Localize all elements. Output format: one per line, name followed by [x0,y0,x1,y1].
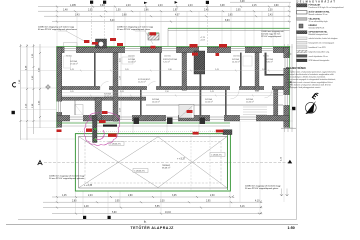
terrace diagonal 4 [158,137,227,188]
right dimension line 3 [291,44,293,132]
window opening top 5 [262,47,273,53]
svg-text:+ +3,37: + +3,37 [177,158,186,161]
room label szoba 7 [205,98,213,103]
compass circle [305,102,316,113]
interior wall v5 [182,53,187,91]
svg-text:9,80 m²: 9,80 m² [266,60,273,63]
svg-text:- A terv szerinti anyagok és r: - A terv szerinti anyagok és rétegrendek… [286,78,336,81]
svg-text:vakolat készítés, festés két r: vakolat készítés, festés két rétegben [309,37,338,40]
svg-text:4,10: 4,10 [255,200,260,202]
bottom section marker square m [108,216,111,219]
deck lines right room [243,107,267,115]
svg-text:+ +3,35: + +3,35 [84,184,93,187]
chimney top outside 1 [96,39,107,48]
top section marker arrow d1 [144,2,147,4]
interior dim chain row 2 [62,95,283,97]
eave level text [200,37,205,42]
svg-text:2,43: 2,43 [268,14,273,16]
svg-text:10,40 m²: 10,40 m² [246,100,254,103]
corridor wall B right thin line [146,104,283,106]
sheet frame bottom border of plan area [18,219,297,221]
bottom dimension line 2 [43,201,260,203]
interior wall v8 [240,53,242,87]
svg-text:PP-UV szigetelőpanel: PP-UV szigetelőpanel [261,35,282,38]
svg-text:11,20 m²: 11,20 m² [138,80,146,83]
svg-text:1,50: 1,50 [116,9,121,11]
svg-text:hőszigetelés 15 cm kőzetgyapot: hőszigetelés 15 cm kőzetgyapot [309,42,335,45]
svg-text:1,97: 1,97 [173,9,178,11]
svg-text:120/150: 120/150 [164,55,171,57]
svg-text:13,16: 13,16 [165,212,171,214]
bottom dimension line 1 [52,196,232,198]
chimney flue circle [98,41,103,46]
svg-text:XPS lábazati hőszigetelés: XPS lábazati hőszigetelés [309,59,330,62]
svg-text:38,08 m²: 38,08 m² [162,167,171,170]
svg-text:C (3046,37): C (3046,37) [134,171,145,173]
balcony outline above window1 [64,43,78,47]
cloud green mark 1 [94,128,97,130]
eave green line right [168,27,290,29]
svg-text:3,68: 3,68 [122,14,127,16]
top dimension ticks [56,6,290,23]
corridor wall B left [62,97,146,100]
room label szoba 3 [232,58,240,63]
door gap corridor 4 [264,86,272,90]
svg-text:2,43: 2,43 [188,5,193,7]
top note right [261,30,284,38]
svg-text:2,05: 2,05 [236,9,241,11]
svg-text:1,05: 1,05 [70,91,74,93]
furniture outline 2 [122,57,133,64]
section letter A left [38,161,43,165]
bath wall line [74,101,76,116]
red label box 5b [151,46,156,49]
terrace hatch block right top [223,130,232,135]
column 1 [134,118,140,125]
outer wall left [57,47,62,127]
red label box 5 [150,32,157,35]
legend row 6 swatch [297,37,308,40]
terrace section dashed vertical 1 [190,130,192,190]
extension lines above building [57,3,290,47]
svg-text:+2,63: +2,63 [200,40,205,42]
top note middle leader [135,31,153,44]
eave edge line right [168,30,290,32]
svg-text:1,50: 1,50 [165,91,169,93]
legend row 9 swatch [297,50,308,53]
window opening top 3 [162,47,176,53]
svg-text:12,05 m²: 12,05 m² [128,60,136,63]
svg-text:3,08: 3,08 [240,1,245,3]
cloud wall segment [93,116,98,143]
red label box 7 [219,44,227,47]
svg-text:2,43: 2,43 [126,5,131,7]
top section vertical line b [91,4,93,46]
room label szoba 4 [266,58,273,63]
svg-text:150/150: 150/150 [233,55,240,57]
window opening right wall 2 [283,95,289,105]
window opening bottom 3 [166,115,178,121]
svg-text:4,07: 4,07 [175,14,180,16]
svg-text:MEGJEGYZÉSEK: MEGJEGYZÉSEK [286,67,306,70]
left section marker B [12,111,15,114]
door swing arc 2 [147,82,156,91]
legend row 8 swatch [297,46,308,49]
compass letter E [312,91,320,99]
furniture outline 3 [243,56,252,66]
right section marker B [292,107,295,110]
svg-text:3,30: 3,30 [160,200,165,202]
door gap corridor 3 [230,86,239,90]
svg-text:2,90: 2,90 [128,195,133,197]
svg-text:12,65 m²: 12,65 m² [205,100,213,103]
svg-text:1,485: 1,485 [70,5,76,7]
left dimension numbers [19,53,41,108]
svg-text:90/150: 90/150 [66,55,72,57]
svg-text:2,43: 2,43 [215,69,219,71]
top section marker arrow d2 [175,1,178,4]
svg-text:2,43: 2,43 [88,195,93,197]
terrace label [162,164,171,170]
terrace section dashed vertical 2 [209,130,211,190]
survey symbol left [45,84,51,90]
window opening top 2 [125,47,140,53]
svg-text:50 mm PP-UV szigetelőpanel gér: 50 mm PP-UV szigetelőpanel gérinc [245,187,278,190]
svg-text:2,30: 2,30 [210,195,215,197]
interior wall v6 [200,74,202,116]
window opening right wall 1 [283,58,289,68]
svg-text:TETŐTÉR ALAPRAJZ: TETŐTÉR ALAPRAJZ [131,225,175,230]
svg-text:- Minden méretet a helyszínen: - Minden méretet a helyszínen ellenőrizn… [286,83,331,86]
svg-text:2,43: 2,43 [158,5,163,7]
insulation green line left [56,46,58,128]
svg-text:2,95: 2,95 [206,200,211,202]
room label szoba 5 [104,93,112,98]
red label box 4 [117,43,123,46]
right dimension numbers [286,65,292,100]
svg-text:50 mm PP-UV szigetelőpanel quí: 50 mm PP-UV szigetelőpanel químote [49,177,85,180]
window opening bottom 5 [240,115,256,121]
svg-text:C (3046,37): C (3046,37) [211,155,222,157]
svg-text:1,48: 1,48 [63,9,68,11]
red label box 1 [84,40,89,43]
top dimension numbers [63,1,279,22]
svg-text:- Az építés során a falazatoka: - Az építés során a falazatokat pontosít… [286,70,337,73]
svg-text:4,48: 4,48 [84,206,89,208]
svg-text:homlokzati 5 cm XPS: homlokzati 5 cm XPS [309,46,327,49]
compass needle [306,102,315,114]
top note middle [117,27,154,32]
revision cloud inner arc [95,130,104,140]
svg-text:1,45: 1,45 [62,195,67,197]
outer wall bottom [57,115,289,121]
top note left [38,27,77,32]
left dimension ticks [20,45,42,122]
svg-text:2,80: 2,80 [72,200,77,202]
interior wall stub h1 [265,74,285,76]
legend row 1 swatch [297,4,308,7]
svg-text:90/150: 90/150 [263,55,269,57]
terrace boxed label 2 [210,153,225,157]
extension lines right [290,47,293,128]
room label furdoszoba [163,58,178,63]
door swing arc 3 [231,90,240,99]
svg-text:TERASZ: TERASZ [162,164,171,167]
svg-text:16,32 m²: 16,32 m² [104,95,112,98]
svg-text:azoktól eltérni csak a tervező: azoktól eltérni csak a tervező írásos en… [286,81,333,84]
window opening bottom 2 [120,115,132,121]
svg-text:0,90: 0,90 [274,5,279,7]
cloud green mark 2 [94,138,97,141]
window opening top 1 [65,47,77,53]
red label box 12 [216,130,224,133]
red label box 10 [86,129,92,132]
right dimension line 1 [284,44,286,132]
right section marker C [287,83,290,87]
svg-text:JELMAGYARÁZAT: JELMAGYARÁZAT [297,0,336,3]
svg-text:1,86: 1,86 [168,69,172,71]
bottom dimension ticks [56,196,260,215]
svg-text:3,05: 3,05 [115,200,120,202]
svg-text:Schiedel UNI PLUS: Schiedel UNI PLUS [309,27,325,29]
room label szoba 8 [246,98,254,103]
svg-text:Porotherm 44 K tégla 10 cm hős: Porotherm 44 K tégla 10 cm hőszigeteléss… [309,6,345,9]
interior wall v4 [160,53,162,87]
svg-text:jelezni szükséges a felelős mű: jelezni szükséges a felelős műszaki veze… [285,76,326,79]
window opening top 4 [231,47,245,53]
porch edge line [57,125,230,127]
window opening bottom 4 [210,115,224,121]
left section marker C [12,83,15,87]
top section vertical line m [104,4,106,46]
room label szoba 1 [70,60,78,65]
room label szoba 2 [128,58,136,63]
window sill dim numbers [66,55,269,57]
top section marker square m [103,1,106,4]
svg-text:tervezővel. Az eltéréseket a k: tervezővel. Az eltéréseket a kivitelezés… [286,73,334,76]
left dimension line 2 [26,44,28,140]
roof box top 2 [148,33,159,40]
bottom dimension line 3 [43,207,260,209]
svg-text:7,25 m²: 7,25 m² [163,60,170,63]
svg-text:6,16: 6,16 [240,206,245,208]
svg-text:5,55: 5,55 [155,206,160,208]
red label box 8 [216,53,220,56]
svg-text:40 mm PP-UV szigetelőpanel gér: 40 mm PP-UV szigetelőpanel gérinclemez [38,28,77,31]
legend row 11 swatch [297,59,308,62]
svg-text:10 cm válaszfallap tégla: 10 cm válaszfallap tégla [309,20,328,23]
svg-text:0,90: 0,90 [100,5,105,7]
door opening top wall middle [199,47,207,53]
furniture outline 1 [64,56,71,68]
cloud lintel bar [103,125,117,127]
insulation green line right [289,46,291,128]
bottom dimension numbers [62,195,260,214]
svg-text:1,05: 1,05 [255,91,259,93]
top dim row 0 right segment [230,1,291,3]
svg-text:2,15: 2,15 [252,5,257,7]
right short verticals [282,189,288,197]
red label box 17 [192,53,198,56]
svg-text:17,63 m²: 17,63 m² [70,62,78,65]
svg-text:C (3046,37): C (3046,37) [110,144,121,146]
svg-text:b.: b. [144,219,147,223]
red label box 15 [102,111,108,114]
sheet bottom rule [6,223,298,225]
section arrow A right [288,160,293,164]
svg-text:3,05: 3,05 [172,195,177,197]
extension lines left [21,47,75,139]
svg-text:3,43: 3,43 [70,69,74,71]
svg-text:8,93: 8,93 [225,20,230,22]
interior wall v3 [140,90,142,116]
left dimension line 3 [33,44,35,134]
red label box 3 [110,38,116,41]
svg-text:2,46: 2,46 [204,9,209,11]
stair block [179,105,194,119]
svg-text:3,43: 3,43 [75,14,80,16]
bottom dimension line 4 [52,213,260,215]
terrace dotted top row 1 [78,131,228,133]
terrace green outline [75,134,230,191]
top section marker square b [90,1,93,4]
top dimension line row 4 [52,21,291,23]
svg-text:14,05 m²: 14,05 m² [152,100,160,103]
top dimension line row 1 [38,2,291,21]
left dimension line 4 [39,44,41,128]
extension lines below building [57,121,284,216]
svg-text:40 mm PP-UV szigetelőpanel gér: 40 mm PP-UV szigetelőpanel gérinc [117,28,150,31]
svg-text:1,86: 1,86 [144,9,149,11]
terrace inner edge [79,136,228,188]
svg-text:2,05: 2,05 [262,69,266,71]
room label kozlekedo [138,78,151,83]
svg-text:- Falvastagok: lásd jelmagyará: - Falvastagok: lásd jelmagyarázat szerin… [286,86,321,89]
room label szoba 6 [152,98,160,103]
legend row 3 swatch [297,18,308,21]
red label box 6 [190,44,198,47]
top dimension line row 3 [44,15,291,17]
column 2 [167,118,173,125]
svg-text:Előtétfal hőszigeteléssel: Előtétfal hőszigeteléssel [309,33,329,36]
red label box 2 [92,42,98,45]
svg-text:Monolit vasbeton 20 cm: Monolit vasbeton 20 cm [309,13,328,16]
red label box 14 [57,129,62,132]
interior wall v1 [94,53,96,87]
interior wall v2 double shaft [113,53,118,122]
right wall footer line [281,127,296,129]
door swing arc 1 [100,82,109,91]
leader arrows at bottom dim row ends [232,195,262,214]
svg-text:5,90: 5,90 [112,212,117,214]
terrace boxed label 3 [133,169,148,173]
column 3 [200,118,206,125]
revision cloud magenta [84,112,120,145]
interior wall v9 [255,53,259,91]
red label box 9 [99,120,106,123]
svg-text:2,43: 2,43 [120,91,124,93]
window opening bottom 1 [70,115,83,121]
terrace diagonal 3 [158,137,227,188]
svg-text:3,65: 3,65 [228,14,233,16]
compass needle line [306,102,316,114]
porch green line below building [57,122,230,124]
outer wall right [284,47,289,127]
corridor wall A [62,86,284,89]
legend row 7 swatch [297,41,308,44]
legend row 2 swatch [297,11,308,14]
door gap corridor 2 [147,86,156,90]
interior wall v10 [274,90,278,116]
svg-text:2,43: 2,43 [210,91,214,93]
terrace boxed label 1 [109,142,124,146]
terrace diagonal 1 [79,137,158,188]
svg-text:talajnedvesség elleni szig.: talajnedvesség elleni szig. [309,50,330,53]
bath wall block [95,98,102,119]
top note left leader [58,31,88,43]
interior wall v11 [265,53,267,76]
svg-text:2,05: 2,05 [88,9,93,11]
svg-text:3,08: 3,08 [220,5,225,7]
interior wall v7 [225,90,227,116]
eave left vertical [167,28,169,46]
terrace dotted top row 2 [78,133,228,135]
terrace right green double [227,130,229,190]
red label box 11 [108,134,117,137]
svg-text:14,32 m²: 14,32 m² [232,60,240,63]
legend row 4 swatch [299,24,303,28]
top section vertical line e [206,4,208,46]
svg-text:vasalt aljzatbeton 10 cm: vasalt aljzatbeton 10 cm [309,55,329,58]
bottom section marker square b [83,216,86,219]
legend row 10 swatch [297,55,308,58]
svg-text:1:50: 1:50 [288,226,295,230]
outer wall top [57,47,289,52]
insulation green line top [57,45,291,47]
red label box 13 [193,132,199,135]
svg-text:2,05: 2,05 [125,69,129,71]
terrace dashed inner rect [85,142,221,184]
door swing arc 4 [265,90,273,98]
terrace diagonal 2 [79,137,158,188]
svg-text:2,30: 2,30 [268,9,273,11]
top dimension line row 2 [38,10,291,12]
section line A dashed [44,162,288,164]
left dimension line 1 [20,44,22,140]
bath fixture [75,105,83,116]
interior dim ticks [80,70,270,97]
window opening left wall [57,102,63,113]
survey symbol right [286,51,292,57]
sheet frame right border [296,0,298,220]
svg-text:100/80 mm nagyság séti kiemelő: 100/80 mm nagyság séti kiemelő nagy [245,185,281,188]
top section marker square e [206,1,209,4]
chimney block interior [194,51,205,74]
right dimension line 2 [287,44,289,132]
corridor dim row [62,91,283,93]
door gap corridor 1 [100,86,109,90]
interior dim chain row 1 [62,70,283,72]
red label box 16 [187,110,193,113]
svg-text:8,48: 8,48 [110,20,115,22]
legend row 5 swatch [297,31,308,34]
interior dim string vertical [119,53,121,120]
